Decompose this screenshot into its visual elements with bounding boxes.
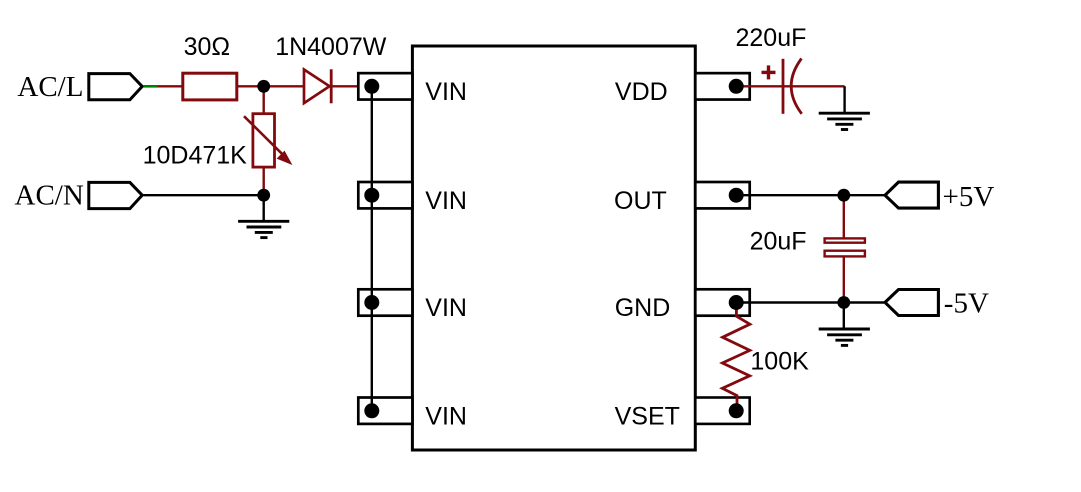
ground (AC/N node) bbox=[238, 195, 289, 237]
pin box VSET bbox=[695, 398, 749, 424]
varistor RV1 10D471K bbox=[143, 92, 292, 195]
wire (to R1) bbox=[158, 85, 183, 87]
wire (OUT to +5V) bbox=[736, 194, 884, 196]
pin box VIN3 bbox=[358, 289, 412, 315]
svg-text:1N4007W: 1N4007W bbox=[275, 33, 387, 61]
wire (VIN bus link) bbox=[371, 86, 373, 411]
pin box VIN1 bbox=[358, 73, 412, 99]
svg-text:-5V: -5V bbox=[944, 288, 989, 320]
svg-text:30Ω: 30Ω bbox=[184, 33, 231, 61]
svg-text:VIN: VIN bbox=[425, 187, 467, 215]
wire (node A to D1) bbox=[264, 85, 305, 87]
junction node OUT bbox=[837, 189, 850, 202]
svg-text:OUT: OUT bbox=[614, 187, 667, 215]
port AC/L bbox=[17, 71, 142, 103]
svg-text:VIN: VIN bbox=[425, 403, 467, 431]
svg-text:100K: 100K bbox=[750, 348, 809, 376]
ground (GND node) bbox=[819, 303, 870, 346]
pin dot VIN2 bbox=[364, 188, 379, 203]
svg-text:220uF: 220uF bbox=[736, 24, 807, 52]
wire (green stub after AC/L) bbox=[144, 85, 158, 88]
wire AC/N bbox=[144, 194, 264, 196]
svg-text:+5V: +5V bbox=[943, 181, 995, 213]
svg-text:VIN: VIN bbox=[425, 294, 467, 322]
diode D1 1N4007W bbox=[275, 33, 387, 103]
svg-text:VIN: VIN bbox=[425, 78, 467, 106]
svg-text:VSET: VSET bbox=[615, 403, 680, 431]
wire (C2 to GND node) bbox=[843, 257, 845, 302]
wire (OUT node to C2) bbox=[843, 195, 845, 237]
svg-text:VDD: VDD bbox=[615, 78, 668, 106]
pin box OUT bbox=[695, 182, 749, 208]
wire (GND to -5V) bbox=[736, 301, 884, 303]
pin box VIN4 bbox=[358, 398, 412, 424]
resistor R2 100K bbox=[722, 307, 809, 404]
port AC/N bbox=[15, 179, 143, 211]
pin dot VIN1 bbox=[364, 79, 379, 94]
port -5V bbox=[885, 288, 989, 320]
junction node A bbox=[257, 80, 270, 93]
svg-text:10D471K: 10D471K bbox=[143, 142, 248, 170]
pin dot VDD bbox=[729, 79, 744, 94]
svg-text:20uF: 20uF bbox=[750, 227, 807, 255]
wire (VDD to C1 and corner) bbox=[736, 85, 844, 87]
svg-text:AC/N: AC/N bbox=[15, 179, 84, 211]
port +5V bbox=[885, 181, 994, 213]
pin dot GND bbox=[729, 295, 744, 310]
IC U1 body bbox=[412, 46, 695, 450]
resistor R1 30R bbox=[183, 33, 237, 100]
svg-text:AC/L: AC/L bbox=[17, 71, 83, 103]
pin dot VIN3 bbox=[364, 295, 379, 310]
wire (R1 to node A) bbox=[238, 85, 264, 87]
pin box GND bbox=[695, 289, 749, 315]
pin box VDD bbox=[695, 73, 749, 99]
pin dot VSET bbox=[729, 403, 744, 418]
wire (D1 to VIN pin 1) bbox=[332, 85, 372, 87]
ground (C1) bbox=[819, 86, 870, 129]
capacitor C1 220uF bbox=[736, 24, 807, 114]
pin dot OUT bbox=[729, 188, 744, 203]
pin box VIN2 bbox=[358, 182, 412, 208]
svg-text:GND: GND bbox=[615, 294, 671, 322]
junction node GND bbox=[837, 296, 850, 309]
pin dot VIN4 bbox=[364, 403, 379, 418]
junction node AC/N bbox=[257, 189, 270, 202]
capacitor C2 20uF bbox=[750, 227, 865, 256]
